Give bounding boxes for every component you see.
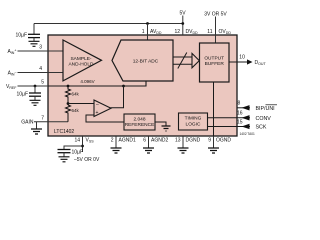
ground C2	[30, 96, 41, 105]
block 2.048V reference	[124, 114, 155, 130]
svg-text:8: 8	[238, 101, 241, 107]
svg-text:AND-HOLD: AND-HOLD	[68, 62, 94, 68]
svg-text:OUTPUT: OUTPUT	[204, 55, 224, 61]
pin 16 CONV input	[208, 111, 272, 122]
svg-text:1402 TA01: 1402 TA01	[240, 132, 256, 136]
supply 5V lead	[179, 11, 186, 36]
ground internal reference	[162, 126, 171, 131]
ground GAIN	[31, 122, 42, 134]
pin 9 OGND	[208, 136, 231, 153]
node junction 5V at pin 1 stub	[146, 22, 149, 40]
svg-text:64k: 64k	[72, 108, 80, 113]
svg-text:12: 12	[174, 29, 180, 35]
pin 5 VREF wire	[6, 80, 48, 91]
svg-text:10µF: 10µF	[72, 150, 84, 156]
svg-text:CONV: CONV	[256, 116, 272, 122]
node VREF to divider	[67, 85, 70, 88]
svg-text:4: 4	[39, 66, 42, 72]
svg-text:LTC1402: LTC1402	[54, 129, 74, 135]
pin 11 OVDD label	[207, 29, 231, 35]
svg-text:BIP/UNI: BIP/UNI	[256, 106, 275, 112]
node VREF to op-amp output	[122, 85, 125, 88]
capacitor C3 10uF VSS bypass	[58, 150, 84, 156]
block output buffer	[200, 43, 230, 82]
amplifier sample-and-hold	[63, 40, 102, 81]
pin 3 AIN+ input wire	[7, 45, 63, 56]
capacitor C2 10uF VREF bypass	[17, 86, 42, 98]
pin 1 AVDD label	[142, 29, 162, 35]
wire output buffer to OGND vertical	[213, 82, 215, 136]
svg-text:AIN+: AIN+	[7, 48, 16, 55]
svg-text:AIN–: AIN–	[8, 70, 17, 77]
pin 12 DVDD label	[174, 29, 198, 35]
supply 3V OR 5V lead	[204, 12, 227, 44]
svg-text:REFERENCE: REFERENCE	[125, 122, 155, 128]
capacitor C1 10uF AVDD bypass	[16, 24, 41, 39]
svg-text:+: +	[96, 110, 99, 116]
svg-text:VSS: VSS	[86, 138, 95, 144]
svg-text:–: –	[96, 101, 99, 107]
resistor R2 64k	[66, 105, 80, 122]
resistor R1 64k	[66, 86, 80, 100]
IC U1 LTC1402 body	[48, 35, 237, 136]
pin 10 DOUT output	[229, 55, 267, 67]
svg-text:4.096V: 4.096V	[80, 79, 94, 84]
svg-text:2: 2	[111, 138, 114, 144]
svg-text:16: 16	[237, 111, 243, 117]
pin 2 AGND1	[111, 136, 136, 153]
op-amp reference buffer	[94, 100, 111, 117]
pin 6 AGND2	[143, 136, 168, 153]
wire VREF rail 4.096V	[48, 79, 146, 86]
svg-text:DOUT: DOUT	[255, 60, 267, 66]
node VREF cap junction	[34, 85, 37, 88]
svg-text:14: 14	[74, 138, 80, 144]
wire op-amp output to VREF rail	[111, 86, 124, 108]
svg-text:15: 15	[237, 120, 243, 126]
svg-text:OGND: OGND	[216, 138, 231, 144]
svg-text:13: 13	[175, 138, 181, 144]
svg-text:DGND: DGND	[186, 138, 201, 144]
svg-text:10: 10	[239, 55, 245, 61]
svg-text:TIMING: TIMING	[185, 116, 202, 122]
pin 8 BIP/UNI input	[238, 101, 278, 112]
svg-text:VREF: VREF	[6, 84, 17, 90]
pin 4 AIN- input wire	[8, 66, 63, 77]
svg-text:–5V OR 0V: –5V OR 0V	[74, 157, 100, 163]
svg-text:AGND2: AGND2	[151, 138, 168, 144]
pin 7 GAIN wire	[21, 116, 68, 126]
svg-text:GAIN: GAIN	[21, 120, 34, 126]
block timing logic	[179, 113, 208, 130]
pin 15 SCK input	[208, 120, 267, 131]
label figure number 1402 TA01	[240, 132, 256, 136]
svg-text:LOGIC: LOGIC	[186, 121, 201, 127]
pin 14 VSS wire	[74, 136, 94, 152]
svg-text:11: 11	[207, 29, 212, 35]
pin 13 DGND	[175, 136, 201, 153]
svg-text:6: 6	[143, 138, 146, 144]
wire divider to op-amp inverting input	[68, 103, 94, 105]
svg-text:2.048: 2.048	[133, 117, 145, 123]
bus ADC to output buffer with arrow	[173, 53, 199, 69]
svg-text:64k: 64k	[72, 92, 80, 97]
node junction 5V at pin 12 stub	[181, 22, 184, 25]
svg-text:BUFFER: BUFFER	[205, 61, 225, 67]
svg-text:AVDD: AVDD	[150, 29, 162, 35]
wire reference to op-amp non-inverting input	[86, 115, 124, 122]
svg-text:DVDD: DVDD	[186, 29, 199, 35]
svg-text:1: 1	[142, 29, 145, 35]
block 12-bit ADC	[112, 40, 173, 81]
svg-text:3: 3	[39, 45, 42, 51]
node VSS cap junction	[64, 145, 84, 150]
svg-text:OVDD: OVDD	[219, 29, 232, 35]
wire reference to internal ground	[155, 122, 166, 126]
svg-text:5: 5	[41, 80, 44, 86]
node divider midpoint	[67, 100, 70, 106]
svg-text:SAMPLE-: SAMPLE-	[70, 56, 91, 62]
label -5V OR 0V supply	[74, 157, 100, 163]
svg-text:12-BIT ADC: 12-BIT ADC	[133, 58, 159, 64]
ground C1	[29, 38, 40, 47]
svg-text:SCK: SCK	[256, 125, 267, 131]
label U1 LTC1402	[54, 129, 74, 135]
wire 5V top rail	[34, 23, 183, 25]
svg-text:10µF: 10µF	[17, 92, 29, 98]
svg-text:AGND1: AGND1	[119, 138, 136, 144]
svg-text:10µF: 10µF	[16, 32, 28, 38]
svg-text:9: 9	[208, 138, 211, 144]
ground C3	[59, 153, 70, 162]
svg-text:7: 7	[41, 116, 44, 122]
